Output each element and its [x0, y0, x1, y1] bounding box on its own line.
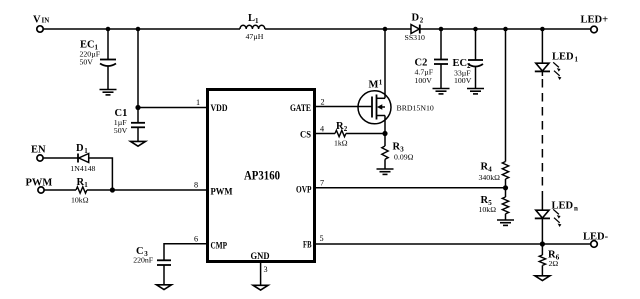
wire GATE pin 2 to M1 gate: [316, 106, 372, 108]
terminal VIN: [37, 26, 43, 32]
node VIN label: [33, 14, 49, 25]
transistor M1 BRD15N10: [358, 91, 391, 124]
wire R4 branch vertical: [505, 29, 507, 162]
svg-text:1: 1: [84, 147, 88, 155]
ground C2 (bar style): [433, 89, 450, 94]
junction dot C1 branch top: [136, 27, 141, 32]
wire top rail L1 to D2: [265, 28, 411, 30]
wire M1 drain to rail: [384, 29, 386, 98]
svg-text:1: 1: [84, 181, 88, 189]
svg-text:10kΩ: 10kΩ: [479, 205, 497, 214]
svg-text:1: 1: [196, 98, 200, 107]
svg-text:2Ω: 2Ω: [549, 259, 559, 268]
ground C1 (open triangle): [131, 141, 146, 146]
svg-text:1N4148: 1N4148: [70, 164, 95, 173]
svg-text:LED+: LED+: [581, 15, 609, 26]
resistor R1: [76, 187, 87, 193]
LED LEDn: [535, 209, 562, 227]
capacitor EC1: [100, 29, 116, 89]
svg-text:D: D: [412, 13, 420, 24]
wire EN to D1: [43, 157, 78, 159]
svg-text:220nF: 220nF: [133, 256, 154, 265]
wire LEDn to FB node: [541, 218, 543, 244]
ground C3 (open triangle): [157, 285, 172, 290]
svg-text:100V: 100V: [415, 76, 433, 85]
svg-text:D: D: [76, 143, 84, 154]
svg-text:3: 3: [264, 265, 268, 274]
svg-text:1kΩ: 1kΩ: [334, 138, 348, 147]
svg-text:AP3160: AP3160: [244, 169, 280, 183]
wire GND pin 3: [260, 263, 262, 286]
capacitor C1: [131, 123, 145, 141]
junction M1 source / R3: [382, 131, 387, 136]
terminal PWM: [38, 187, 44, 193]
junction OVP node: [503, 185, 508, 190]
junction dot M1 drain: [383, 27, 388, 32]
junction dot R4 top: [503, 27, 508, 32]
svg-text:VDD: VDD: [211, 104, 228, 114]
terminal LED-: [591, 241, 598, 248]
ground R6 (open triangle): [535, 276, 550, 281]
svg-text:GND: GND: [251, 252, 270, 262]
svg-text:PWM: PWM: [26, 178, 53, 189]
wire dashed LED string: [541, 71, 543, 76]
svg-text:L: L: [248, 13, 255, 24]
diode D2: [411, 25, 420, 34]
junction dot VDD node: [135, 105, 140, 110]
svg-text:6: 6: [194, 235, 198, 244]
junction dot C2 top: [439, 27, 444, 32]
svg-text:SS310: SS310: [405, 33, 425, 42]
ground R3 (bar style): [377, 169, 394, 174]
svg-text:OVP: OVP: [296, 186, 312, 196]
wire R1 to PWM node: [87, 189, 206, 191]
svg-text:FB: FB: [303, 241, 312, 251]
svg-text:LED: LED: [552, 201, 574, 212]
svg-text:R: R: [77, 177, 85, 188]
svg-text:V: V: [33, 14, 41, 25]
svg-text:2: 2: [344, 125, 348, 133]
wire top rail D2 to LED+: [420, 28, 591, 30]
svg-text:8: 8: [194, 181, 198, 190]
svg-text:R: R: [336, 121, 344, 132]
ground GND pin (open triangle): [253, 285, 268, 290]
svg-text:7: 7: [320, 179, 324, 188]
svg-text:100V: 100V: [454, 76, 472, 85]
svg-text:LED-: LED-: [583, 232, 609, 243]
wire PWM to R1: [44, 189, 76, 191]
svg-text:5: 5: [320, 234, 324, 243]
wire C1/VDD branch vertical: [137, 29, 139, 123]
terminal EN: [37, 155, 43, 161]
wire M1 source down: [384, 116, 386, 134]
svg-text:R: R: [393, 142, 401, 153]
svg-text:2: 2: [420, 17, 424, 25]
wire VDD node to pin 1: [138, 107, 206, 109]
resistor R5: [502, 188, 508, 220]
svg-text:EN: EN: [31, 145, 46, 156]
inductor L1: [240, 25, 265, 29]
junction dot LED1 top: [540, 27, 545, 32]
diode D1 (cathode left): [78, 154, 89, 163]
wire FB pin 5 to LED-: [316, 243, 591, 245]
svg-text:47µH: 47µH: [246, 32, 264, 41]
junction FB node: [540, 241, 545, 246]
IC U1 AP3160 box: [208, 90, 315, 262]
resistor R6: [539, 244, 545, 276]
svg-text:GATE: GATE: [290, 104, 311, 114]
terminal LED+: [591, 26, 598, 33]
LED LED1: [535, 62, 562, 80]
capacitor C3: [157, 260, 171, 284]
svg-text:EC: EC: [453, 58, 468, 69]
svg-text:0.09Ω: 0.09Ω: [394, 153, 414, 162]
svg-text:50V: 50V: [114, 126, 128, 135]
ground EC2 (bar style): [467, 89, 484, 94]
ground EC1 (bar style): [100, 90, 117, 95]
svg-text:2: 2: [321, 98, 325, 107]
resistor R2: [335, 130, 346, 136]
capacitor EC2: [468, 29, 483, 88]
svg-text:50V: 50V: [80, 58, 94, 67]
wire R2 to M1 source node: [346, 133, 385, 135]
svg-text:1: 1: [575, 56, 579, 64]
capacitor C2: [434, 29, 448, 88]
svg-text:CS: CS: [300, 131, 311, 141]
pin numbers: [194, 98, 325, 275]
ground R5 (bar style): [497, 220, 514, 225]
svg-text:340kΩ: 340kΩ: [479, 173, 501, 182]
wire CS pin 4 to R2: [316, 133, 335, 135]
wire OVP pin 7 to node: [316, 187, 506, 189]
wire D1 to corner to PWM node: [89, 158, 113, 190]
svg-text:LED: LED: [552, 52, 574, 63]
svg-text:1: 1: [379, 79, 383, 87]
wire CMP pin to C3: [164, 244, 206, 260]
resistor R4: [502, 162, 508, 188]
wire LED1 branch: [541, 29, 543, 63]
svg-text:IN: IN: [42, 16, 50, 24]
svg-text:4: 4: [320, 125, 324, 134]
resistor R3: [382, 134, 388, 169]
svg-text:10kΩ: 10kΩ: [71, 196, 89, 205]
svg-text:CMP: CMP: [211, 242, 228, 252]
svg-text:BRD15N10: BRD15N10: [397, 104, 434, 113]
junction dot EC1 top: [106, 27, 111, 32]
junction dot EC2 top: [473, 27, 478, 32]
svg-text:PWM: PWM: [211, 188, 233, 198]
svg-text:M: M: [369, 80, 379, 91]
wire top rail VIN to L1: [43, 28, 240, 30]
svg-text:1: 1: [255, 17, 259, 25]
svg-text:R: R: [481, 162, 489, 173]
junction node D1/R1: [110, 187, 115, 192]
svg-text:n: n: [574, 205, 578, 213]
